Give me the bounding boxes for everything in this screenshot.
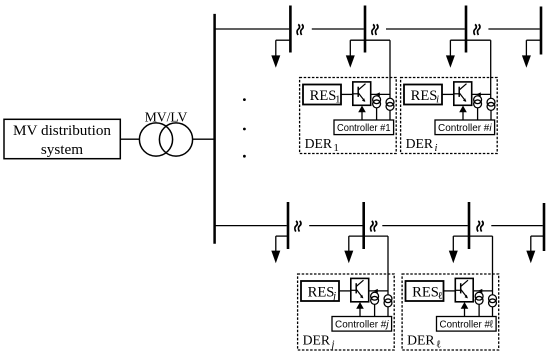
converter IGBT symbol bbox=[455, 289, 460, 291]
bus T4 bbox=[540, 7, 543, 55]
wire measurement B to controller bbox=[490, 110, 492, 120]
MV distribution system box bbox=[4, 119, 120, 158]
wire measurement B to controller bbox=[389, 110, 391, 120]
line-break symbol after bus T1 bbox=[297, 24, 299, 35]
wire drop to DER from bus B3 bbox=[492, 236, 494, 295]
wire drop to DER from bus T3 bbox=[490, 40, 492, 98]
svg-text:1: 1 bbox=[334, 143, 339, 154]
wire converter to PCC junction bbox=[371, 93, 390, 95]
wire converter to PCC junction bbox=[472, 93, 491, 95]
line-break symbol after bus B2 bbox=[371, 221, 373, 232]
wire feeder B segment 4 bbox=[491, 225, 543, 227]
DER unit DERl dashed enclosure bbox=[402, 274, 499, 350]
wire measurement A to controller bbox=[376, 108, 378, 120]
ellipsis dots (more feeders) bbox=[243, 98, 246, 101]
main LV bus bbox=[213, 14, 216, 244]
wire measurement A to controller bbox=[374, 304, 376, 316]
wire controller to converter (gating) with arrow bbox=[464, 308, 466, 316]
load arrow at bus B1 bbox=[275, 236, 277, 252]
svg-text:RES: RES bbox=[412, 284, 439, 300]
current-direction arrowhead on wire bbox=[373, 289, 378, 293]
wire feeder B segment 2 bbox=[309, 225, 362, 227]
wire RES to converter bbox=[341, 93, 353, 95]
load arrow at bus B2 bbox=[348, 236, 350, 252]
RES ℓ box bbox=[406, 281, 444, 301]
RES j box bbox=[301, 281, 339, 301]
wire branch at bus B1 bbox=[276, 235, 288, 237]
wire controller to converter (gating) with arrow bbox=[359, 308, 361, 316]
current-direction arrowhead on wire bbox=[476, 92, 481, 96]
controller box DERi bbox=[435, 120, 495, 135]
wire RES to converter bbox=[442, 93, 454, 95]
svg-text:1: 1 bbox=[335, 94, 340, 105]
svg-text:ℓ: ℓ bbox=[438, 291, 443, 302]
current-direction arrowhead on wire bbox=[375, 92, 380, 96]
DER unit DERi dashed enclosure bbox=[401, 78, 498, 154]
controller box DER1 bbox=[334, 120, 394, 135]
line-break symbol after bus B1 bbox=[295, 221, 297, 232]
wire feeder T segment 2 bbox=[312, 28, 364, 30]
wire controller to converter (gating) with arrow bbox=[361, 112, 363, 120]
svg-text:DER: DER bbox=[305, 136, 333, 151]
DER unit DER1 dashed enclosure bbox=[300, 78, 397, 154]
transformer T1 (MV/LV) bbox=[139, 123, 172, 156]
svg-text:i: i bbox=[435, 143, 438, 154]
bus B2 bbox=[362, 202, 365, 249]
wire converter to PCC junction bbox=[473, 290, 492, 292]
svg-text:system: system bbox=[41, 141, 83, 158]
svg-text:Controller #ℓ: Controller #ℓ bbox=[440, 320, 494, 331]
wire branch at bus T3 bbox=[450, 39, 490, 41]
svg-text:RES: RES bbox=[411, 88, 438, 104]
measurement transformer (pair A) bbox=[373, 96, 381, 104]
RES i box bbox=[404, 85, 442, 105]
wire branch at bus T1 bbox=[276, 39, 291, 41]
RES 1 box bbox=[303, 85, 341, 105]
measurement transformer (pair B) bbox=[386, 98, 394, 106]
svg-text:RES: RES bbox=[310, 88, 337, 104]
wire feeder T segment 4 bbox=[488, 28, 539, 30]
wire MV box to transformer bbox=[120, 138, 139, 140]
svg-text:DER: DER bbox=[303, 332, 331, 347]
wire measurement A to controller bbox=[477, 108, 479, 120]
wire branch at bus B4 bbox=[531, 235, 544, 237]
wire converter to PCC junction bbox=[369, 290, 388, 292]
converter IGBT symbol bbox=[454, 93, 459, 95]
wire branch at bus B3 bbox=[453, 235, 492, 237]
load arrow at bus T2 bbox=[349, 40, 351, 57]
load arrow at bus B4 bbox=[530, 236, 532, 252]
svg-text:ℓ: ℓ bbox=[436, 340, 441, 351]
load arrow at bus T4 bbox=[525, 40, 527, 57]
bus T2 bbox=[364, 6, 367, 53]
bus B1 bbox=[287, 202, 290, 249]
controller box DERj bbox=[332, 317, 392, 332]
svg-text:i: i bbox=[436, 94, 439, 105]
line-break symbol after bus B3 bbox=[477, 221, 479, 232]
converter (VSC) box DERj bbox=[351, 278, 369, 301]
bus B4 bbox=[543, 203, 546, 251]
controller box DERl bbox=[437, 317, 497, 332]
line-break symbol after bus T2 bbox=[372, 24, 374, 35]
measurement transformer (pair B) bbox=[487, 98, 495, 106]
measurement transformer (pair A) bbox=[475, 292, 483, 300]
wire controller to converter (gating) with arrow bbox=[462, 112, 464, 120]
load arrow at bus T3 bbox=[449, 40, 451, 57]
wire feeder B segment 3 bbox=[382, 225, 468, 227]
bus T3 bbox=[465, 6, 468, 53]
svg-text:MV/LV: MV/LV bbox=[145, 110, 188, 125]
line-break symbol after bus T3 bbox=[474, 24, 476, 35]
converter (VSC) box DER1 bbox=[353, 82, 371, 105]
wire measurement B to controller bbox=[492, 307, 494, 317]
svg-text:RES: RES bbox=[308, 284, 335, 300]
wire transformer to main bus bbox=[193, 138, 215, 140]
svg-text:Controller #i: Controller #i bbox=[438, 123, 492, 134]
converter IGBT symbol bbox=[353, 93, 358, 95]
wire feeder T segment 3 bbox=[386, 28, 465, 30]
svg-text:Controller #j: Controller #j bbox=[335, 320, 389, 331]
svg-text:Controller #1: Controller #1 bbox=[337, 123, 391, 134]
bus T1 bbox=[289, 6, 292, 53]
measurement transformer (pair B) bbox=[489, 295, 497, 303]
converter IGBT symbol bbox=[351, 289, 356, 291]
converter (VSC) box DERl bbox=[455, 278, 473, 301]
wire measurement A to controller bbox=[478, 304, 480, 316]
wire feeder B segment 1 bbox=[215, 225, 287, 227]
measurement transformer (pair A) bbox=[474, 96, 482, 104]
wire branch at bus T4 bbox=[526, 39, 541, 41]
bus B3 bbox=[468, 202, 471, 249]
measurement transformer (pair B) bbox=[384, 295, 392, 303]
DER unit DERj dashed enclosure bbox=[298, 274, 395, 350]
svg-text:DER: DER bbox=[407, 332, 435, 347]
wire measurement B to controller bbox=[387, 307, 389, 317]
wire drop to DER from bus T2 bbox=[389, 40, 391, 98]
svg-text:MV distribution: MV distribution bbox=[13, 122, 111, 139]
wire branch at bus T2 bbox=[350, 39, 390, 41]
load arrow at bus B3 bbox=[452, 236, 454, 252]
measurement transformer (pair A) bbox=[371, 292, 379, 300]
wire RES to converter bbox=[339, 290, 351, 292]
svg-text:DER: DER bbox=[406, 136, 434, 151]
wire RES to converter bbox=[444, 290, 456, 292]
current-direction arrowhead on wire bbox=[478, 289, 483, 293]
wire feeder T segment 1 bbox=[215, 28, 290, 30]
wire branch at bus B2 bbox=[349, 235, 388, 237]
wire drop to DER from bus B2 bbox=[387, 236, 389, 295]
load arrow at bus T1 bbox=[275, 40, 277, 57]
converter (VSC) box DERi bbox=[454, 82, 472, 105]
